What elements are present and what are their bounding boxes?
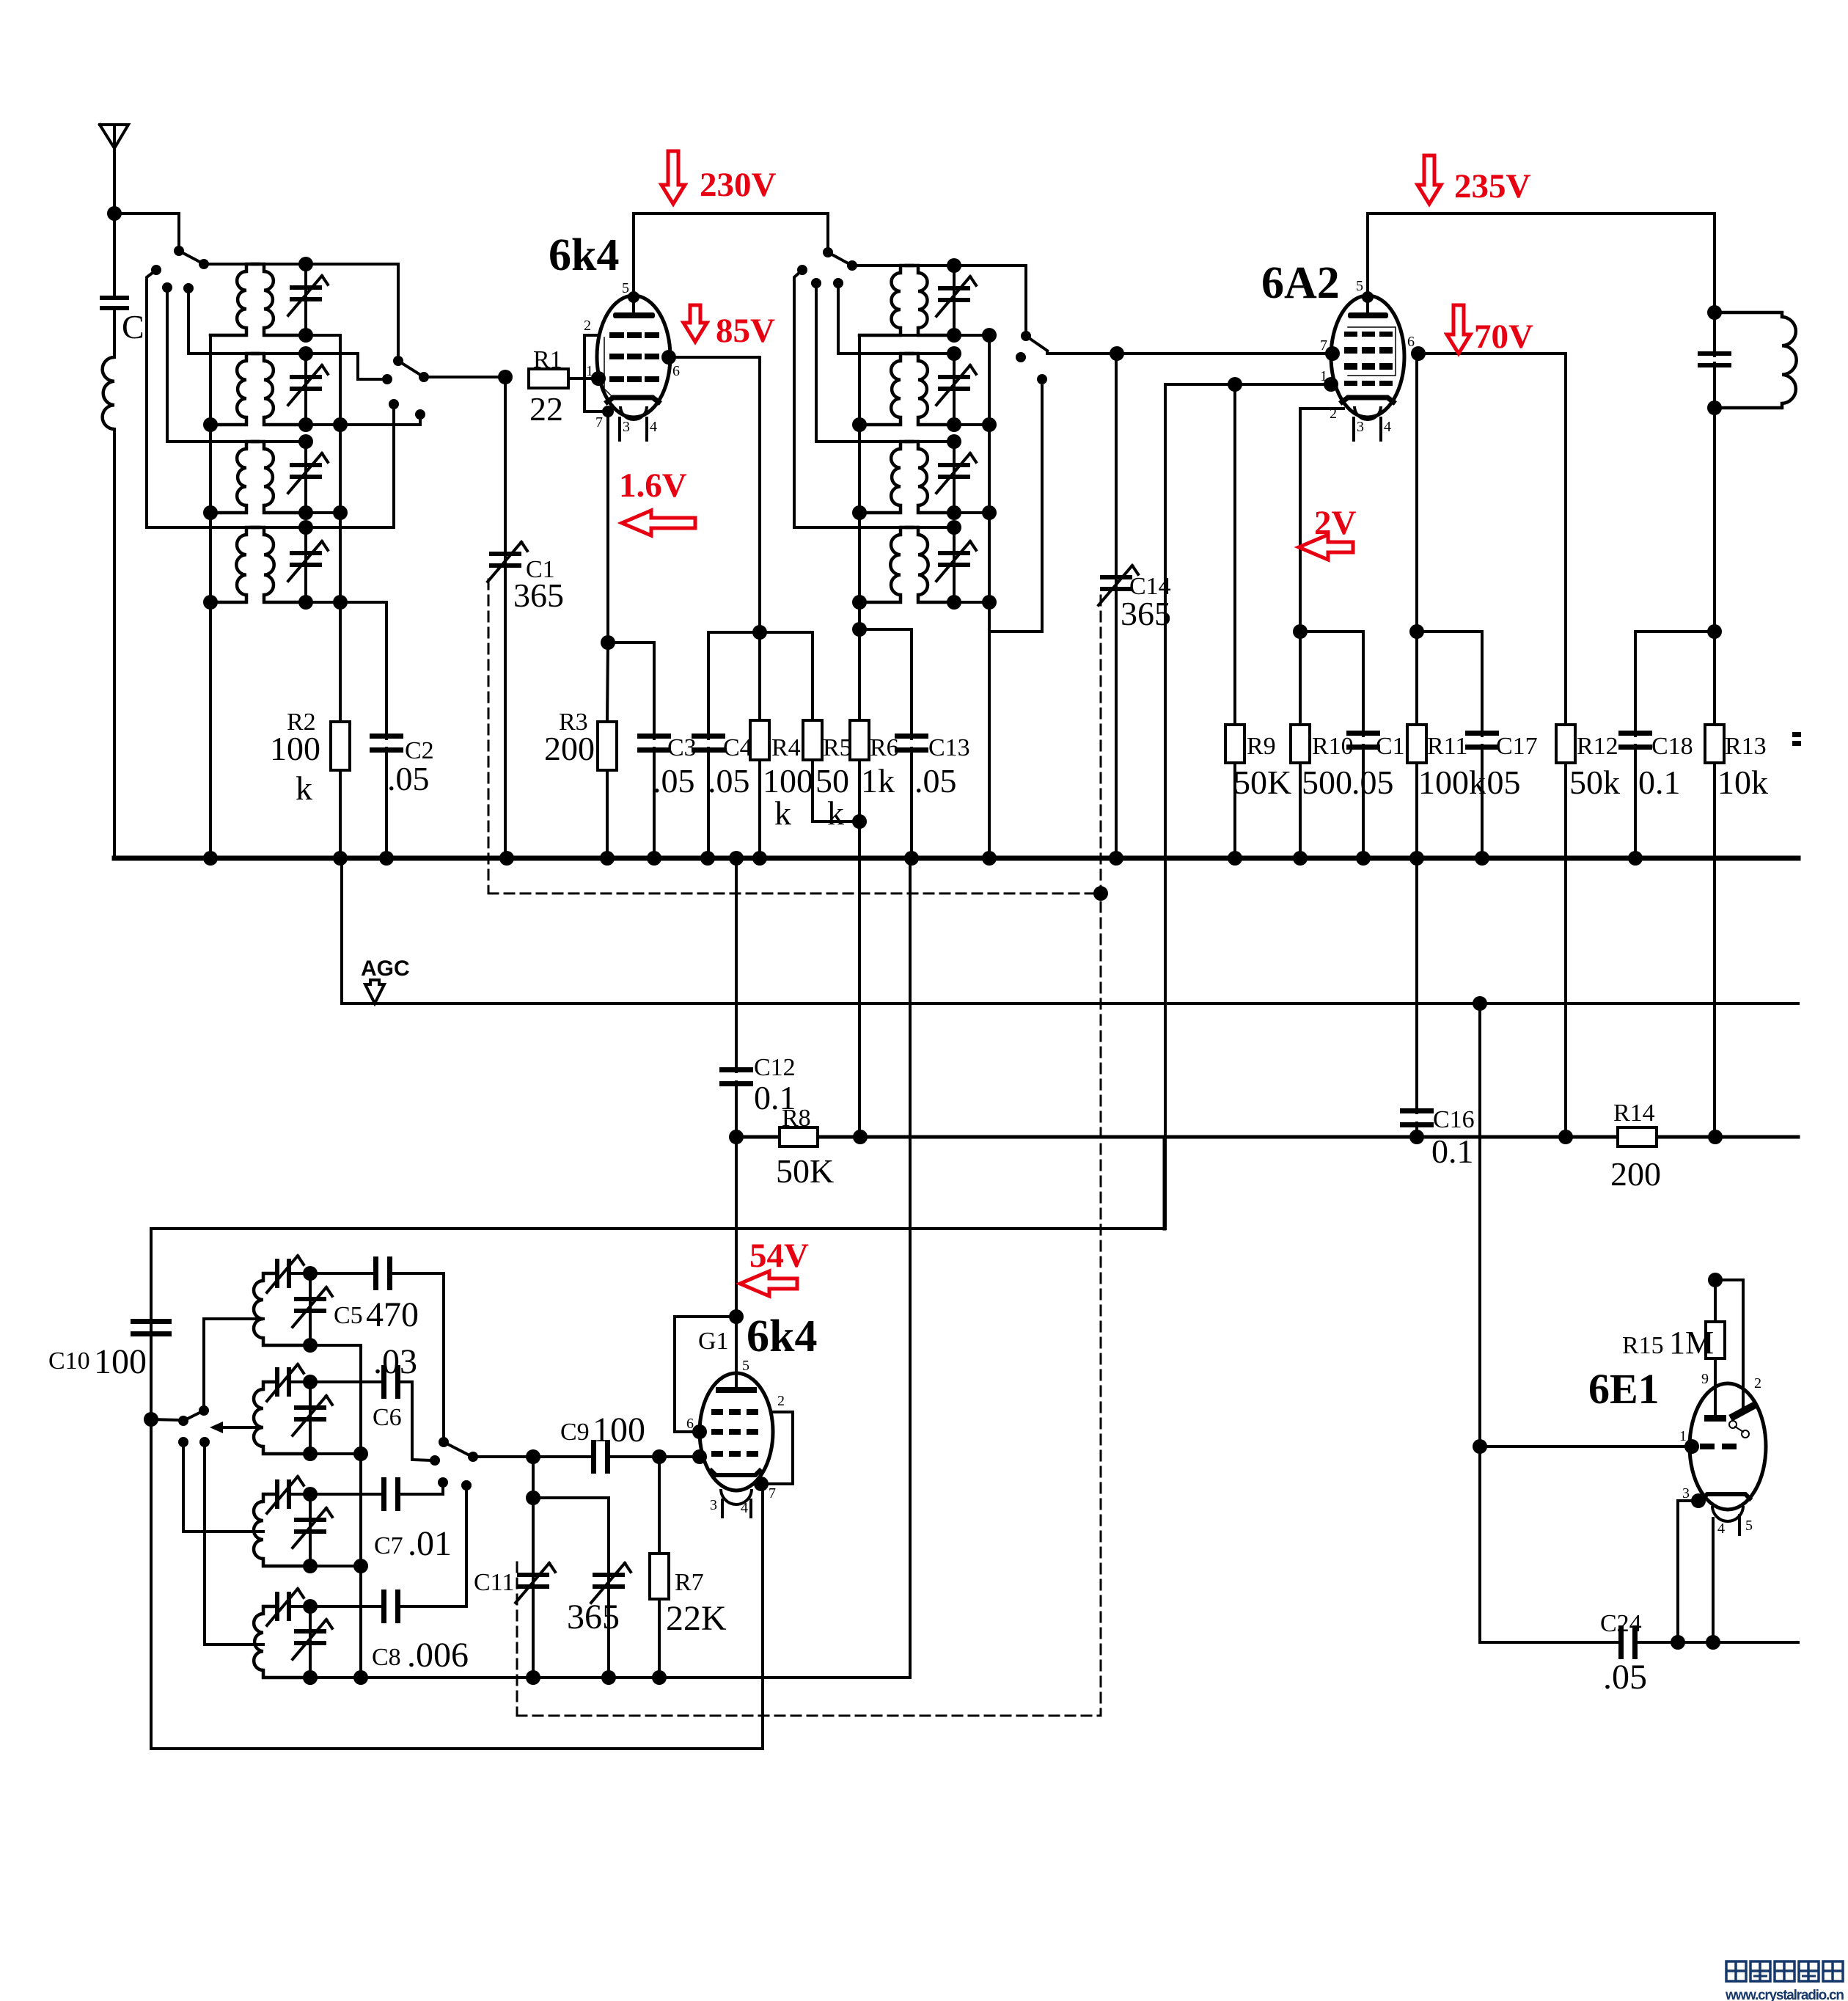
svg-text:.05: .05 [653,762,695,800]
switch S2b contact lower [1037,374,1047,384]
antenna transformer row4 primary coil [246,527,258,535]
parallel trimmer capacitor row 2 [309,1382,312,1454]
junction ground bus [379,851,394,866]
gang link dashed C1 [488,579,490,893]
svg-text:50K: 50K [776,1152,834,1190]
switch S1 contact row2 [183,283,194,293]
wire osc box bottom bus [310,1676,910,1679]
wire feedback column [909,858,912,1678]
wire to C9 [473,1455,594,1458]
wire osc row1 top to switch S2b [852,264,901,267]
antenna transformer row3 secondary coil [252,442,264,449]
watermark crystalradio logo glyphs [1726,1961,1746,1981]
wire row1 bottom [859,334,989,337]
oscillator transformer row1 secondary coil [906,266,918,273]
antenna transformer row1 primary coil [246,264,258,271]
svg-text:C24: C24 [1600,1610,1642,1637]
wire to pin2 [1715,1280,1743,1389]
junction ground bus [647,851,661,866]
svg-text:1k: 1k [861,762,895,800]
AGC arrow [365,980,384,1003]
antenna [100,125,128,148]
wire row2 bottom extension [340,414,420,425]
svg-text:5: 5 [1745,1518,1753,1534]
switch S1b contact row3 [811,278,821,288]
tube V2 heater legs pins 3 4 [1352,418,1355,440]
tube V4 pin4 wire [1712,1518,1715,1642]
inductor antenna coil [113,309,116,357]
svg-text:R13: R13 [1725,733,1767,760]
tube V3 anode bar [716,1387,757,1393]
antenna trimmer capacitor row3 [264,440,306,443]
voltage label 235V [1418,156,1441,204]
switch S4 oscillator grid pole [439,1437,449,1447]
svg-text:2: 2 [1754,1375,1761,1391]
svg-text:70V: 70V [1474,318,1533,356]
resistor R13 10k [1713,632,1716,725]
tube V4 deflector bar [1734,1406,1753,1416]
svg-text:G1: G1 [698,1328,729,1355]
svg-text:.05: .05 [1352,764,1394,801]
svg-text:470: 470 [366,1295,419,1334]
wire AGC takeoff [340,858,343,1003]
capacitor C7 .01 padder [310,1493,382,1496]
tube V2 pin2 wire to R10 [1300,409,1343,632]
series trimmer row 1 [263,1272,275,1275]
wire antenna bank right column [339,335,342,722]
tube V3 cathode [711,1471,760,1475]
antenna transformer row1 secondary coil [252,264,264,271]
capacitor C12 0.1 [735,858,738,1072]
capacitor C4 .05 [707,632,710,739]
svg-text:5: 5 [1356,278,1363,294]
svg-text:100k: 100k [1418,764,1486,801]
wire 70V line [1418,354,1566,725]
wire pin6 to detector column [669,357,760,632]
node R7 top [652,1449,667,1464]
resistor R10 500 [1293,624,1308,639]
capacitor C5 470 padder [310,1272,374,1275]
tube V4 target bar [1704,1415,1726,1422]
parallel trimmer capacitor row 1 [309,1273,312,1345]
svg-text:5: 5 [622,280,629,296]
svg-text:3: 3 [1357,419,1364,435]
node detector column [729,1130,744,1144]
junction ground bus [1356,851,1371,866]
wire row4 top extension [306,404,394,527]
series trimmer row 2 [263,1380,275,1383]
svg-text:6: 6 [672,363,680,379]
node IFT bottom [1707,400,1722,415]
wire antenna bank left column [209,335,212,858]
wire antenna to band switch S1 [114,213,179,249]
node R14 output [1708,1130,1723,1144]
mark equals right edge [1792,732,1801,737]
switch S1b contact row2 [833,278,843,288]
svg-text:4: 4 [1384,419,1391,435]
tube V3 grid dashes [711,1409,723,1415]
svg-text:C10: C10 [48,1347,90,1375]
oscillator transformer row4 secondary coil [906,527,918,535]
tube V3 heater arc [721,1489,752,1504]
svg-text:k: k [296,769,312,807]
junction ground bus [729,851,744,866]
svg-text:.006: .006 [407,1636,469,1675]
capacitor C9 100 grid [591,1440,596,1474]
series trimmer row 4 [263,1605,275,1608]
switch S1 contact row3 [162,282,172,293]
svg-text:10k: 10k [1717,764,1768,801]
switch S3 wiper arrow rowB tap [220,1426,261,1429]
tube V4 heater arc [1712,1506,1743,1521]
svg-text:200: 200 [1610,1155,1661,1193]
tube V2 pin5 wire to 235V rail [1366,213,1369,296]
wire rowC bottom [310,1565,361,1567]
capacitor C11 365 tuning gang section 3 [532,1457,535,1678]
tube V4 ray indicator [1729,1421,1737,1428]
svg-text:50k: 50k [1569,764,1620,801]
svg-text:R9: R9 [1247,733,1276,760]
wire C24 line [1478,1446,1481,1642]
svg-text:3: 3 [623,419,630,435]
junction ground bus [752,851,767,866]
svg-text:1.6V: 1.6V [619,467,687,505]
resistor R6 1k [852,814,867,829]
voltage label 85V [683,305,707,342]
switch S3 pole [199,1405,209,1416]
svg-text:365: 365 [567,1598,620,1636]
resistor R4 100k [758,632,761,720]
wire main ground bus [114,856,1798,861]
resistor R9 50K [1233,384,1236,725]
oscillator trimmer capacitor row4 [918,526,954,529]
svg-text:100: 100 [270,730,320,767]
node G1 top cap [729,1309,744,1324]
oscillator coil row 2 [263,1382,275,1389]
tube V1 pin5 wire to 230V rail [632,213,635,296]
junction ground bus [600,851,615,866]
resistor R8 50K [780,1127,818,1146]
svg-text:www.crystalradio.cn: www.crystalradio.cn [1725,1988,1844,2001]
tube V1 grid side rod [604,337,615,399]
capacitor C24 .05 [1618,1625,1624,1659]
svg-text:7: 7 [1320,337,1327,354]
resistor R11 100k [1409,624,1424,639]
svg-text:6k4: 6k4 [747,1312,817,1361]
switch S1b oscillator band pole [826,213,829,249]
antenna trimmer capacitor row2 [264,352,306,355]
junction ground bus [1109,851,1123,866]
svg-text:.05: .05 [1603,1658,1647,1697]
oscillator transformer row4 primary coil [901,527,912,535]
wire rowB bottom [310,1452,361,1455]
svg-text:k: k [774,794,791,832]
svg-text:1: 1 [586,363,593,379]
junction ground bus [904,851,919,866]
junction ground bus [982,851,997,866]
svg-text:22K: 22K [666,1599,727,1638]
IFT coil [1715,312,1782,317]
wire oscillator bus to 6A2 pin7 [1047,352,1332,354]
svg-text:200: 200 [544,730,595,767]
tube V1 cathode wire to R3 [606,411,609,643]
oscillator trimmer capacitor row3 [918,440,954,443]
resistor R14 200 [1618,1127,1657,1146]
tube V4 pin1 grid [1684,1439,1699,1454]
svg-text:C6: C6 [373,1404,402,1431]
svg-text:500: 500 [1302,764,1352,801]
svg-text:R6: R6 [870,734,899,761]
svg-text:C17: C17 [1496,733,1538,760]
wire oscillator box bottom edge [151,1747,763,1750]
wire osc bank right column [988,335,991,858]
resistor R3 200 [607,643,608,722]
svg-text:C13: C13 [928,734,970,761]
switch S2b oscillator output [1021,331,1031,341]
tube V1 grid bracket pins 2-7 [584,335,608,411]
node osc box switch junction [144,1412,158,1427]
resistor R1 22 [529,369,568,388]
junction ground bus [1628,851,1643,866]
tube V1 6k4 envelope [597,296,670,417]
wire pole to rowA tap [204,1319,263,1411]
svg-text:4: 4 [741,1500,748,1516]
voltage label 70V [1447,305,1470,354]
junction ground bus [1409,851,1424,866]
oscillator trimmer capacitor row2 [918,352,954,355]
wire 6E1 grid column [1478,1003,1481,1446]
svg-text:6k4: 6k4 [549,230,619,280]
node cathode junction [601,635,615,650]
tube V3 6k4 envelope [700,1373,773,1490]
svg-text:C8: C8 [372,1644,401,1671]
resistor R12 50k [1556,725,1575,763]
junction ground bus [700,851,715,866]
wire column to oscillator grid cap [735,1137,738,1374]
antenna transformer row4 secondary coil [252,527,264,535]
tube V2 heater arc [1354,406,1381,420]
capacitor C6 .03 padder [310,1380,382,1383]
wire rowA bottom [310,1344,361,1347]
node R8 output [853,1130,868,1144]
junction ground bus [203,851,218,866]
tube V4 cathode [1703,1494,1750,1499]
wire osc bank left column [858,335,861,629]
node 70V audio junction [1558,1130,1573,1144]
antenna trimmer capacitor row1 [264,263,306,266]
svg-text:9: 9 [1701,1371,1709,1387]
tube V4 pin3 wire [1691,1493,1706,1508]
capacitor C antenna coupling [113,213,116,297]
svg-text:0.1: 0.1 [754,1079,796,1116]
capacitor C1 365 tuning gang section 1 [504,377,507,858]
tube V1 anode bar [613,312,655,318]
junction ground bus [333,851,348,866]
svg-text:5: 5 [742,1358,749,1374]
switch S3 contact rowC [178,1437,188,1447]
svg-text:50K: 50K [1233,764,1291,801]
svg-text:230V: 230V [700,166,777,204]
wire cathode to box bottom [761,1484,764,1749]
svg-text:235V: 235V [1454,167,1531,205]
svg-text:C18: C18 [1651,733,1693,760]
switch S2 RF selector [393,356,403,366]
oscillator transformer row2 primary coil [901,354,912,361]
svg-text:85V: 85V [716,312,775,350]
tube V2 internal screen line [1348,327,1396,376]
resistor R15 1M [1714,1280,1717,1322]
antenna transformer row2 primary coil [246,354,258,361]
gang link dashed C11 [516,1562,518,1716]
node R1-C1 junction [498,370,513,384]
tube V2 pin1 wire [1165,383,1331,386]
oscillator coil row 3 [263,1494,275,1501]
capacitor C2 .05 [340,602,386,739]
svg-text:.01: .01 [408,1524,452,1563]
svg-text:C7: C7 [374,1532,403,1559]
svg-text:1M: 1M [1669,1325,1714,1361]
svg-text:3: 3 [710,1497,717,1513]
voltage label 230V [661,151,685,204]
svg-text:2: 2 [777,1393,785,1409]
junction ground bus [1293,851,1308,866]
node antenna junction [107,206,122,221]
svg-text:C5: C5 [334,1302,363,1329]
capacitor C8 .006 padder [310,1605,382,1608]
tube V2 6A2 envelope [1331,296,1404,417]
wire G1 loop [675,1317,736,1432]
tube V1 grid dashes [609,332,624,338]
tube V4 grid dashes [1700,1444,1715,1449]
oscillator coil row 4 [263,1606,275,1614]
switch S3 osc band throw [178,1416,188,1426]
tube V2 anode bar [1348,312,1388,318]
capacitor C14 365 tuning gang section 2 [1110,346,1124,361]
svg-text:6: 6 [1407,334,1415,350]
svg-text:6E1: 6E1 [1588,1365,1660,1413]
wire IFT to detector [1713,408,1716,632]
svg-text:365: 365 [513,577,564,614]
svg-text:C4: C4 [723,734,752,761]
svg-text:AGC: AGC [361,956,410,981]
tube V1 heater arc [620,406,647,420]
wire AGC bus [342,1002,1798,1005]
series trimmer row 3 [263,1493,275,1496]
svg-text:k: k [827,794,844,832]
resistor R2 100k [339,602,342,722]
tube V3 heater legs pins 3 4 [721,1500,724,1517]
node R9 top [1228,377,1242,392]
wire 235V down to IFT [1713,213,1716,312]
svg-text:4: 4 [1717,1521,1725,1537]
tube V1 cathode [607,398,659,402]
capacitor C15 .05 [1300,632,1363,736]
parallel trimmer capacitor row 4 [309,1606,312,1678]
junction ground bus [1228,851,1242,866]
svg-text:1: 1 [1679,1428,1687,1444]
svg-text:C16: C16 [1433,1106,1475,1133]
tube V2 pin7 [1325,346,1340,361]
node R15 top [1708,1273,1723,1287]
svg-text:R4: R4 [771,734,801,761]
svg-text:7: 7 [769,1485,776,1501]
capacitor C3 .05 cathode bypass [608,643,654,739]
oscillator trimmer parallel [533,1498,609,1678]
wire row1 top to output switch S2 [204,264,398,361]
oscillator transformer row1 primary coil [901,266,912,273]
tube V3 pin5 [735,1317,738,1386]
svg-text:22: 22 [529,390,563,428]
svg-text:.05: .05 [1478,764,1521,801]
IFT resonating capacitor [1698,351,1731,356]
node pin6 load junction [752,625,767,640]
svg-text:3: 3 [1682,1485,1690,1501]
tube V3 grid input [659,1455,700,1458]
capacitor C17 .05 [1417,632,1482,736]
oscillator transformer row3 secondary coil [906,442,918,449]
svg-text:R5: R5 [823,734,852,761]
tube V3 pins 2 7 bracket [763,1412,793,1484]
svg-text:R15: R15 [1622,1332,1664,1359]
svg-text:R11: R11 [1427,733,1467,760]
tube V1 pin6 output [661,350,676,365]
wire row2 top extension [306,354,387,379]
svg-text:R12: R12 [1577,733,1618,760]
svg-text:54V: 54V [749,1237,809,1275]
svg-text:R14: R14 [1613,1100,1655,1127]
svg-text:.05: .05 [387,760,430,797]
junction ground bus [1475,851,1489,866]
wire oscillator box left edge [150,1229,153,1749]
tube V4 pin5 stub [1738,1515,1741,1534]
switch S3 contact rowD [199,1437,210,1447]
node IFT top [1707,305,1722,320]
oscillator coil row 1 [263,1273,275,1281]
svg-text:6A2: 6A2 [1261,258,1340,308]
tube V2 pin6 [1411,346,1426,361]
switch S1 contact row4 [151,265,161,275]
resistor R7 22K [658,1457,661,1554]
antenna transformer row3 primary coil [246,442,258,449]
resistor R5 50k [811,632,814,720]
junction ground bus [499,851,514,866]
svg-text:2: 2 [584,318,591,334]
tube V2 grid dashes [1344,332,1357,337]
svg-text:100: 100 [94,1342,147,1381]
wire R6 column down to audio line [858,760,861,1137]
gang link dashed C14 [1100,596,1102,1716]
svg-text:C12: C12 [754,1054,796,1081]
svg-text:4: 4 [650,419,657,435]
svg-text:0.1: 0.1 [1638,764,1681,801]
svg-text:.05: .05 [914,762,957,800]
capacitor C18 0.1 [1707,624,1722,639]
parallel trimmer capacitor row 3 [309,1494,312,1566]
wire 230V rail [634,212,828,215]
svg-text:100: 100 [593,1411,645,1449]
svg-text:365: 365 [1121,595,1171,632]
capacitor C13 .05 [852,622,867,637]
tube V2 cathode [1342,398,1393,402]
oscillator transformer row3 primary coil [901,442,912,449]
switch S1b contact row4 [797,265,807,275]
node C11 top [526,1449,540,1464]
wire grid return line [151,1227,1165,1230]
svg-text:1: 1 [1320,368,1327,384]
svg-text:C11: C11 [474,1569,514,1596]
svg-text:R7: R7 [675,1569,704,1596]
svg-text:R1: R1 [533,346,562,373]
